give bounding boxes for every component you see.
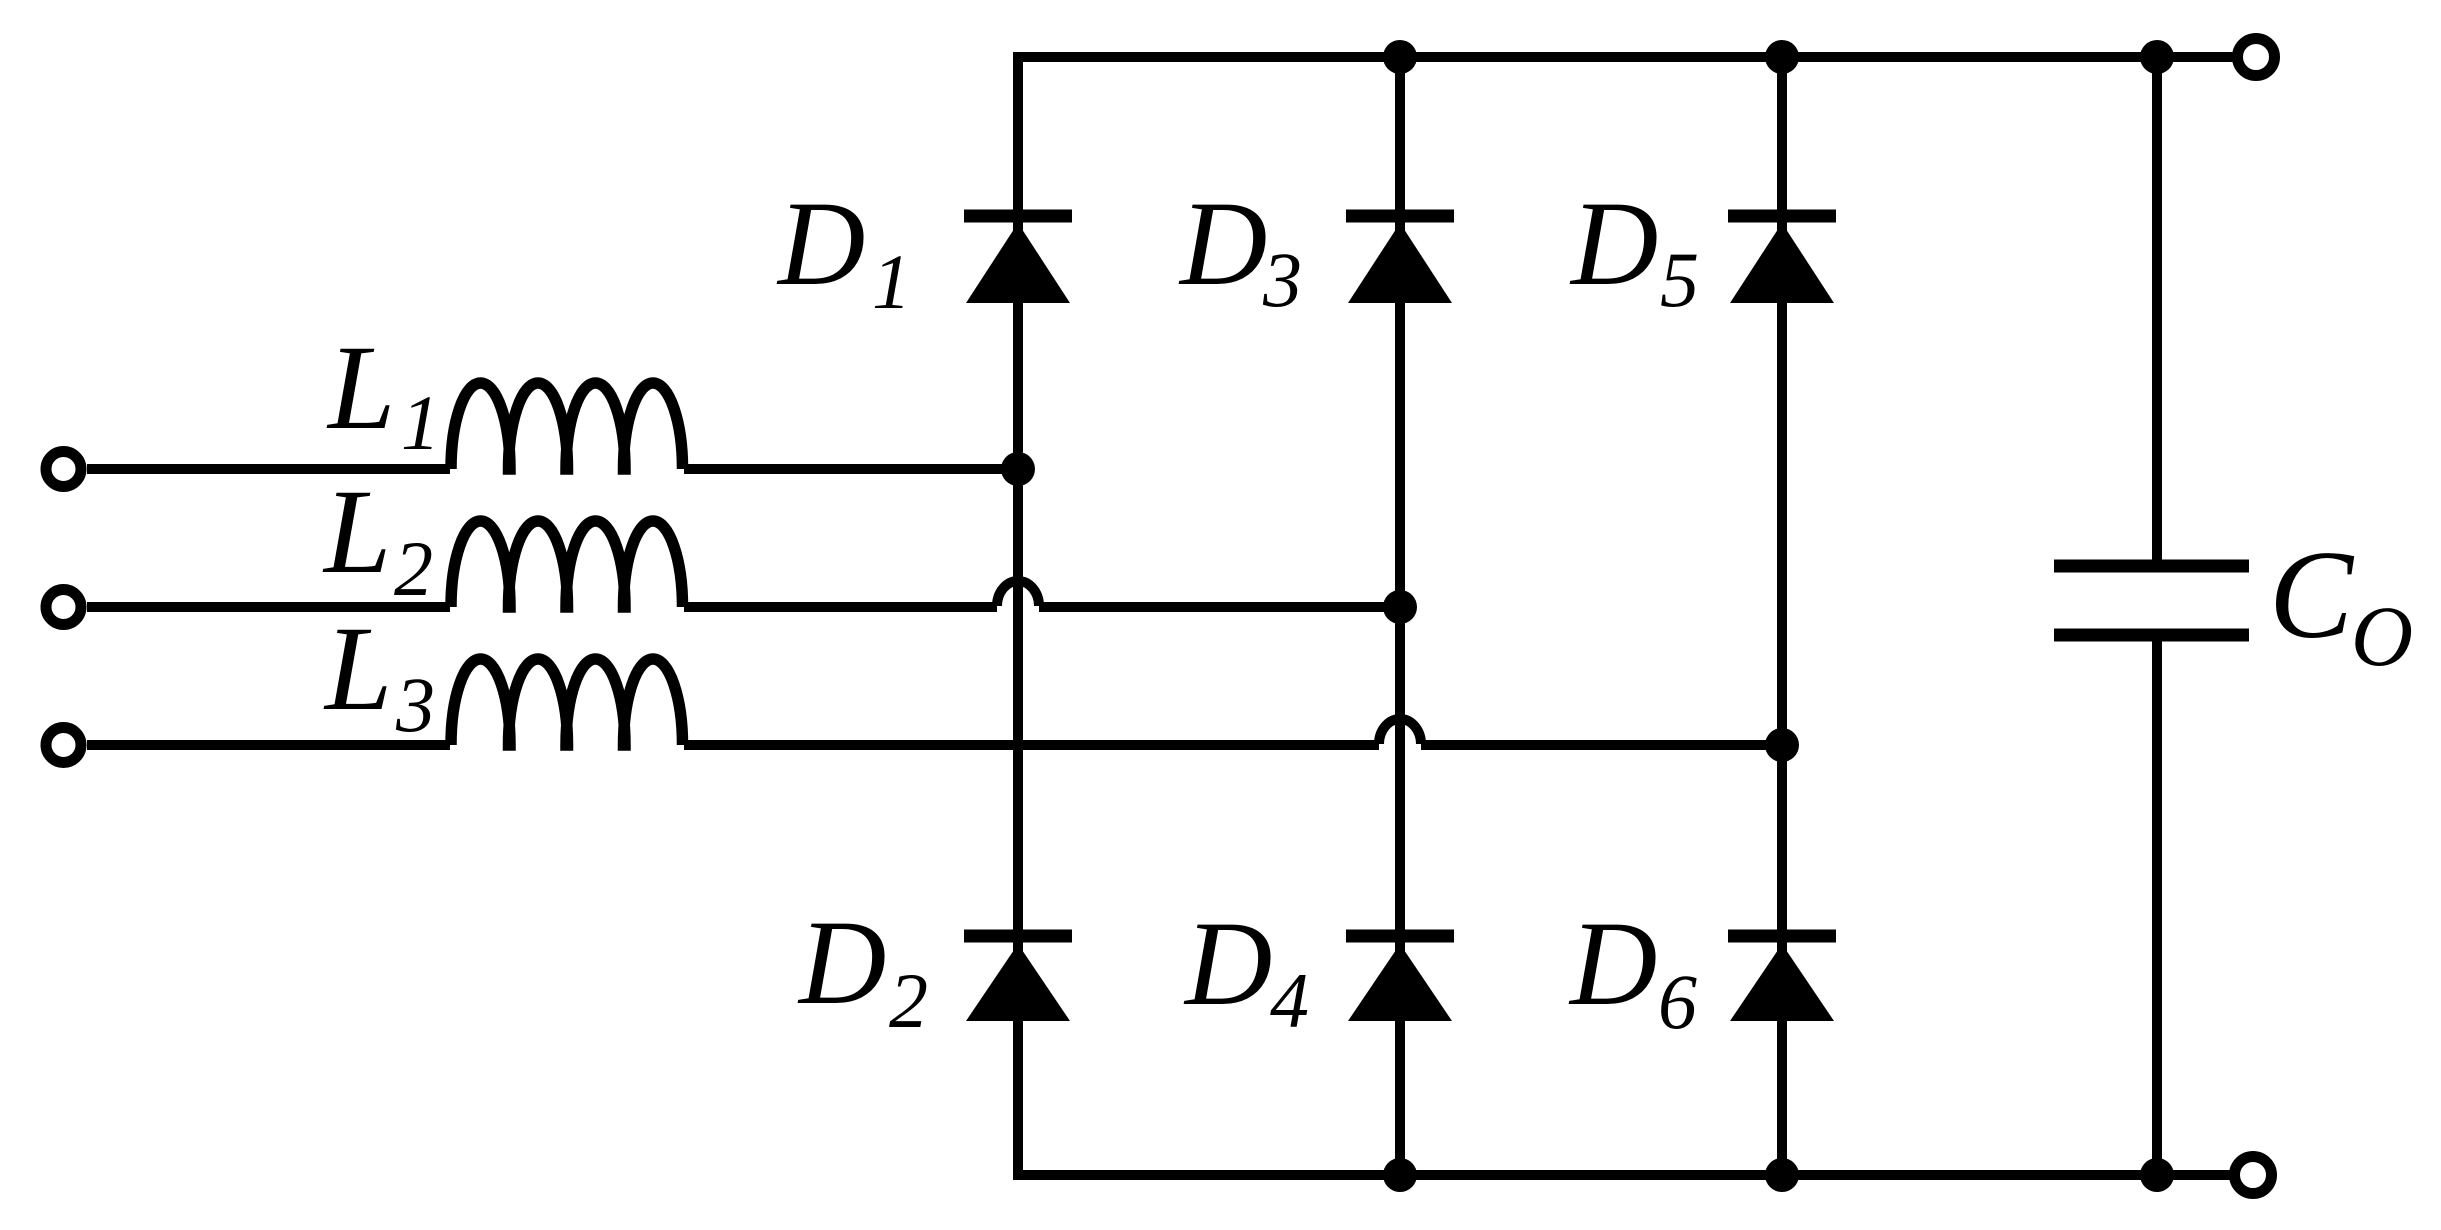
svg-text:1: 1 [872, 238, 911, 325]
output terminal positive [2238, 39, 2275, 76]
wire: output branch below capacitor Co [2152, 641, 2162, 1175]
svg-text:D: D [1183, 897, 1272, 1031]
node A: junction L1 / leg 1 [1001, 452, 1035, 486]
diode D5 [1728, 216, 1836, 303]
diode D3 [1346, 216, 1454, 303]
label L3 [323, 602, 435, 748]
wire: phase C from inductor L3 across leg 1 to hop at leg 2 [684, 740, 1379, 750]
label D3 [1178, 177, 1302, 323]
svg-text:5: 5 [1660, 236, 1699, 323]
wire: phase B from hop to node at leg 2 [1039, 602, 1400, 612]
svg-text:4: 4 [1270, 957, 1309, 1044]
svg-text:1: 1 [401, 379, 440, 466]
junction top rail / output branch [2140, 40, 2174, 74]
svg-text:L: L [322, 465, 391, 599]
svg-text:L: L [323, 602, 392, 736]
svg-text:2: 2 [889, 957, 928, 1044]
inductor L2 [451, 521, 683, 607]
label D2 [797, 896, 928, 1044]
wire: phase C from hop to node at leg 3 [1421, 740, 1782, 750]
label D6 [1568, 897, 1697, 1045]
label L2 [322, 465, 433, 612]
svg-text:3: 3 [1262, 236, 1302, 323]
wire: phase B crossover hop over leg 1 [997, 581, 1039, 606]
capacitor C_O plates [2054, 566, 2249, 635]
svg-text:D: D [797, 896, 886, 1030]
output terminal negative [2235, 1157, 2272, 1194]
wire: output branch above capacitor Co [2152, 57, 2162, 560]
label C_O [2269, 526, 2413, 684]
input terminal phase A [46, 452, 81, 487]
wire: phase C from input terminal to inductor L3 [87, 740, 450, 750]
svg-text:6: 6 [1658, 958, 1697, 1045]
svg-text:D: D [1178, 177, 1267, 311]
svg-text:3: 3 [395, 661, 435, 748]
diode D2 [964, 936, 1072, 1021]
node B: junction L2 / leg 2 [1383, 590, 1417, 624]
label L1 [326, 321, 440, 466]
junction bottom rail / output branch [2140, 1158, 2174, 1192]
junction top rail / leg 3 [1765, 40, 1799, 74]
diode D4 [1346, 936, 1454, 1021]
diode D6 [1728, 936, 1836, 1021]
wire: phase B from input terminal to inductor L2 [87, 602, 450, 612]
junction bottom rail / leg 2 [1383, 1158, 1417, 1192]
svg-text:C: C [2269, 526, 2355, 665]
inductor L1 [451, 383, 683, 469]
label D5 [1569, 177, 1699, 323]
wire: phase A from inductor L1 to node at leg 1 [684, 464, 1018, 474]
wire: phase C crossover hop over leg 2 [1379, 719, 1421, 744]
inductor L3 [451, 659, 683, 745]
input terminal phase C [46, 728, 81, 763]
wire: top rail, leg 1 vertical, bottom rail (C-shape bus) [1018, 57, 2233, 1175]
junction bottom rail / leg 3 [1765, 1158, 1799, 1192]
wire: phase A from input terminal to inductor L1 [87, 464, 450, 474]
label D1 [776, 177, 911, 325]
svg-text:O: O [2351, 588, 2413, 684]
wire: bridge leg 2 vertical [1395, 57, 1405, 1175]
svg-text:D: D [1568, 897, 1657, 1031]
junction top rail / leg 2 [1383, 40, 1417, 74]
svg-text:L: L [326, 321, 395, 455]
svg-text:2: 2 [394, 525, 433, 612]
svg-text:D: D [776, 177, 865, 311]
diode D1 [964, 216, 1072, 303]
wire: phase B from inductor L2 to hop at leg 1 [684, 602, 997, 612]
label D4 [1183, 897, 1309, 1044]
node C: junction L3 / leg 3 [1765, 728, 1799, 762]
wire: bridge leg 3 vertical [1777, 57, 1787, 1175]
svg-text:D: D [1569, 177, 1658, 311]
input terminal phase B [46, 590, 81, 625]
